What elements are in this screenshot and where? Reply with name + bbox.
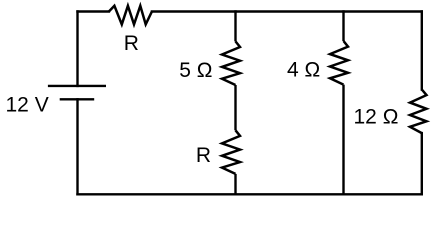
svg-text:R: R [124,32,139,55]
wire: right side bottom lead (12-ohm down to bottom-right corner) [421,133,423,194]
battery B1 (12 V source) plates [48,86,106,99]
resistor 4-ohm [330,41,348,85]
wire: battery positive terminal up to top-left corner [76,12,78,86]
wire: middle branch between 5-ohm and R [234,85,236,130]
resistor 12-ohm (right branch) [410,90,427,134]
svg-text:5 Ω: 5 Ω [179,59,212,82]
wire: battery negative terminal down to bottom rail [76,99,78,194]
wire: 4-ohm branch top lead (node B down to 4-ohm) [342,12,344,42]
svg-text:12 Ω: 12 Ω [354,106,399,129]
wire: middle branch top lead (node A down to 5-ohm) [234,12,236,42]
wire: middle branch bottom lead (R down to bottom rail) [234,174,236,194]
wire: 4-ohm branch bottom lead (4-ohm down to bottom rail) [342,85,344,195]
wire: bottom rail (bottom-left corner to bottom-right corner) [78,193,422,195]
svg-text:4 Ω: 4 Ω [287,59,320,82]
wire: top rail, node B to top-right corner [344,10,422,12]
resistor 5-ohm (middle branch, upper) [222,41,240,85]
wire: top rail, corner to resistor R [78,10,109,12]
resistor R (middle branch, lower) [222,130,240,174]
wire: top rail, node A to node B (4-ohm branch tap) [236,10,344,12]
wire: top rail, R to node A (middle branch tap) [152,10,236,12]
svg-text:R: R [196,144,211,167]
resistor R (series, top) [109,6,152,25]
wire: right side top lead (top-right corner down to 12-ohm) [421,12,423,90]
svg-text:12 V: 12 V [6,93,49,116]
